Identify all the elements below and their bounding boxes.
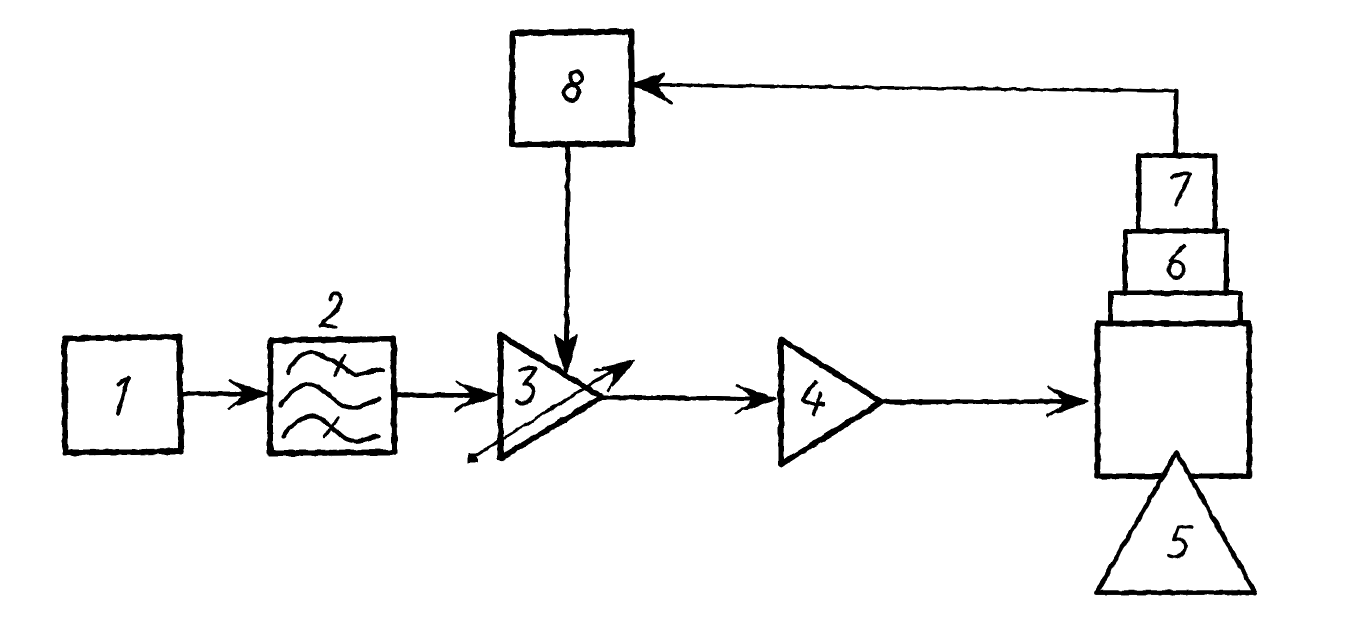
feedback wire corner to block8 (632, 74, 1177, 104)
wire amp3 to amp4 (602, 385, 777, 413)
block 1 (65, 337, 182, 453)
antenna triangle 5 (1097, 453, 1256, 593)
block 5 pedestal (1111, 293, 1241, 323)
label 1 (118, 377, 129, 414)
label 3 (517, 368, 536, 403)
label 8 (564, 71, 583, 100)
variable-arrow through amp3 (469, 350, 641, 462)
label 6 (1169, 245, 1184, 278)
wire block2 to amp3 (395, 382, 497, 411)
block 6 (1125, 231, 1227, 293)
filter wave top with cross (288, 352, 383, 375)
wire block1 to block2 (181, 380, 268, 408)
label 7 (1172, 174, 1190, 205)
block 5 (1098, 324, 1250, 477)
label 2 (321, 293, 342, 327)
filter wave middle (281, 385, 379, 408)
label 4 (803, 383, 823, 415)
label 5 (1168, 527, 1192, 558)
block 7 (1139, 156, 1216, 232)
wire amp4 to block5 (882, 388, 1089, 416)
block 2 (filter) (270, 339, 395, 453)
amp 3 (variable amplifier) (501, 335, 602, 458)
amp 4 (781, 340, 882, 465)
block 8 (512, 32, 632, 145)
wire block7 to corner (1173, 91, 1178, 157)
filter wave bottom with cross (284, 416, 379, 440)
wire block8 to amp3 control input (555, 145, 577, 375)
